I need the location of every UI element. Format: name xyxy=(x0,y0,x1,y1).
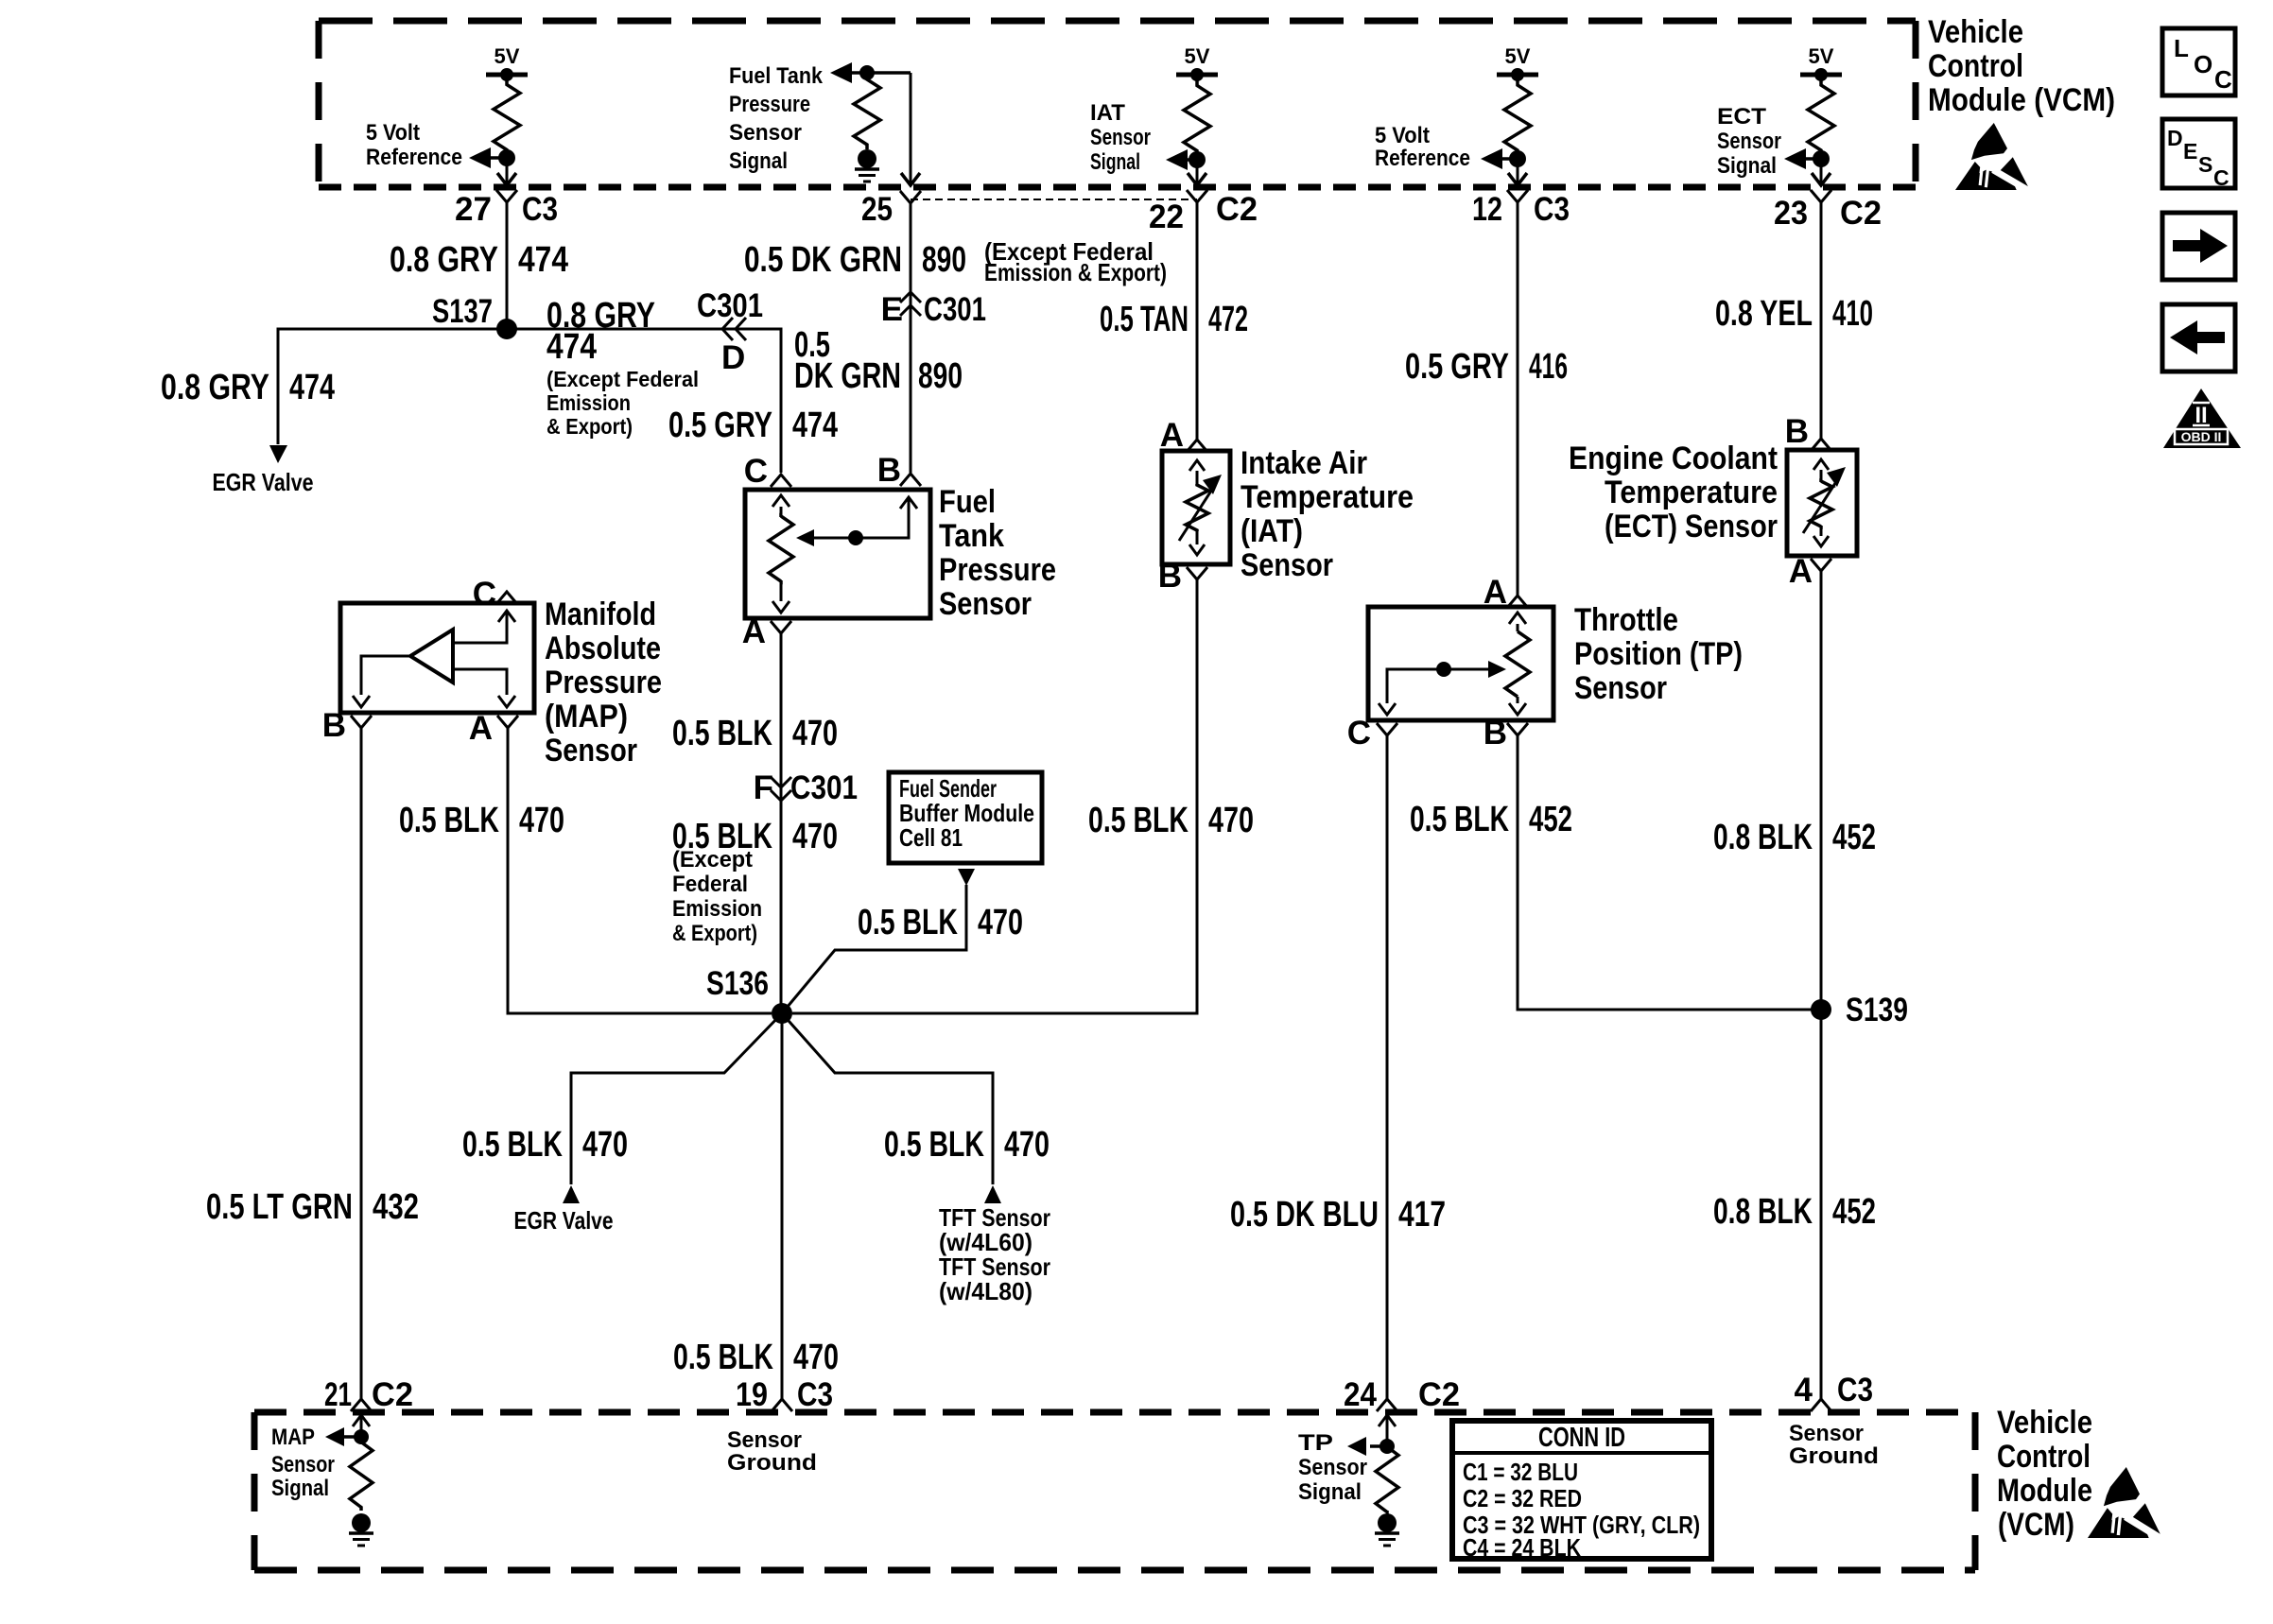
svg-text:C301: C301 xyxy=(924,291,986,328)
svg-text:5 Volt: 5 Volt xyxy=(366,120,420,146)
svg-text:(IAT): (IAT) xyxy=(1241,513,1303,549)
pin C of TP sensor xyxy=(1347,715,1397,752)
power 5V rail (pin 23 column) xyxy=(1800,44,1842,81)
node S139 splice xyxy=(1811,992,1908,1028)
wire down to pin 22 with arrow xyxy=(1188,160,1206,185)
wiper arm inside TP xyxy=(1379,661,1506,715)
connector C301 D (double chevron left) xyxy=(697,287,763,376)
svg-text:(w/4L80): (w/4L80) xyxy=(939,1277,1032,1305)
ESD symbol bottom xyxy=(2088,1467,2162,1540)
svg-text:0.8 GRY: 0.8 GRY xyxy=(161,368,269,407)
label 0.8 YEL 410 xyxy=(1715,294,1873,334)
resistor TP signal load xyxy=(1376,1447,1398,1512)
svg-text:Vehicle: Vehicle xyxy=(1997,1405,2092,1441)
svg-text:E: E xyxy=(881,291,903,328)
svg-text:470: 470 xyxy=(793,1338,839,1377)
potentiometer resistor inside TP xyxy=(1505,613,1530,715)
wire MAP A down to S136 xyxy=(508,728,772,1013)
svg-text:C3: C3 xyxy=(522,191,558,228)
svg-text:Pressure: Pressure xyxy=(545,665,662,700)
label 0.5 GRY 416 xyxy=(1405,347,1568,387)
label Fuel Tank Pressure Sensor xyxy=(939,484,1056,622)
power 5V rail (pin 22 column) xyxy=(1176,44,1218,81)
svg-text:Fuel: Fuel xyxy=(939,484,996,520)
svg-text:470: 470 xyxy=(582,1125,628,1165)
ground symbol MAP signal xyxy=(349,1513,373,1546)
label EGR Valve (bottom) xyxy=(514,1206,614,1235)
svg-text:470: 470 xyxy=(1004,1125,1050,1165)
svg-text:890: 890 xyxy=(918,356,963,396)
component Fuel Sender Buffer Module box xyxy=(889,772,1042,863)
connector C301 F (double chevron down) xyxy=(754,769,858,806)
svg-text:Signal: Signal xyxy=(1090,149,1140,175)
svg-text:Pressure: Pressure xyxy=(729,92,810,117)
svg-text:B: B xyxy=(1158,558,1182,595)
wire S136 down to pin 19 xyxy=(781,1013,784,1399)
svg-text:0.5 DK BLU: 0.5 DK BLU xyxy=(1230,1195,1379,1235)
svg-text:Sensor: Sensor xyxy=(1574,670,1667,706)
svg-text:B: B xyxy=(877,452,901,489)
svg-text:B: B xyxy=(322,707,346,744)
wire fuel tank A down through F C301 to S136 xyxy=(780,633,783,1013)
thermistor symbol inside ECT xyxy=(1803,459,1846,546)
wire S136 down-left branch to EGR valve xyxy=(571,1013,782,1184)
MAP input wire to A pin (down arrow) xyxy=(453,669,515,707)
arrow to TFT sensor (up) xyxy=(984,1185,1001,1203)
label MAP Sensor Signal xyxy=(271,1425,335,1501)
component ECT sensor box xyxy=(1787,450,1857,556)
svg-text:DK GRN: DK GRN xyxy=(794,356,901,396)
svg-text:A: A xyxy=(742,613,766,650)
wiper arm inside fuel tank sensor xyxy=(796,497,917,546)
pin 12 C3 connector xyxy=(1472,190,1570,228)
module VCM bottom dashed box xyxy=(254,1412,1975,1570)
svg-text:C2: C2 xyxy=(372,1376,413,1413)
svg-text:470: 470 xyxy=(519,801,564,840)
svg-text:C: C xyxy=(1347,715,1371,752)
label IAT Sensor Signal with left arrow xyxy=(1090,100,1197,175)
label 0.8 GRY 474 (pin 27 wire) xyxy=(390,240,568,280)
svg-text:S137: S137 xyxy=(432,293,493,330)
label 0.5 BLK 470 (pin 19 wire) xyxy=(673,1338,839,1377)
wire S136 right to IAT B xyxy=(792,579,1197,1013)
label 0.8 GRY 474 (EGR branch) xyxy=(161,368,335,407)
svg-text:Pressure: Pressure xyxy=(939,552,1056,588)
svg-text:0.5 DK GRN: 0.5 DK GRN xyxy=(744,240,902,280)
svg-text:5V: 5V xyxy=(495,44,520,68)
svg-text:Reference: Reference xyxy=(1375,146,1470,171)
svg-text:& Export): & Export) xyxy=(672,921,757,946)
node junction IAT signal xyxy=(1189,151,1206,168)
svg-text:0.5 BLK: 0.5 BLK xyxy=(1088,801,1189,840)
svg-text:C301: C301 xyxy=(697,287,763,324)
svg-text:S: S xyxy=(2198,152,2212,177)
svg-text:Engine Coolant: Engine Coolant xyxy=(1569,441,1778,476)
label 0.5 DK GRN 890 (pin 25 wire) xyxy=(744,240,966,280)
svg-text:B: B xyxy=(1484,715,1507,752)
svg-text:22: 22 xyxy=(1149,199,1184,235)
label 0.5 BLK 452 (TP B wire) xyxy=(1410,800,1572,839)
svg-text:E: E xyxy=(2183,139,2197,164)
op-amp triangle inside MAP xyxy=(410,630,453,682)
svg-text:474: 474 xyxy=(289,368,335,407)
svg-text:416: 416 xyxy=(1529,347,1568,387)
svg-text:470: 470 xyxy=(792,714,838,753)
svg-text:19: 19 xyxy=(736,1376,768,1413)
svg-text:F: F xyxy=(754,769,773,806)
pin C of MAP sensor xyxy=(473,576,517,613)
svg-text:Absolute: Absolute xyxy=(545,631,661,666)
label 0.5 LT GRN 432 xyxy=(206,1187,419,1227)
wire pin25 down through E C301 to fuel tank B xyxy=(910,202,912,473)
pin 4 C3 connector xyxy=(1795,1372,1873,1411)
svg-text:410: 410 xyxy=(1832,294,1873,334)
pin B of fuel tank pressure sensor xyxy=(877,452,921,489)
connector C301 E (double chevron up) xyxy=(881,291,986,328)
svg-text:432: 432 xyxy=(373,1187,419,1227)
svg-text:Position (TP): Position (TP) xyxy=(1574,636,1743,672)
svg-text:21: 21 xyxy=(324,1376,352,1413)
svg-text:0.5 BLK: 0.5 BLK xyxy=(399,801,499,840)
svg-text:Sensor: Sensor xyxy=(1090,125,1151,150)
svg-text:C3: C3 xyxy=(1534,191,1570,228)
svg-text:Emission: Emission xyxy=(547,390,631,415)
svg-text:Sensor: Sensor xyxy=(729,120,802,146)
potentiometer resistor inside fuel tank sensor xyxy=(769,495,793,613)
svg-text:474: 474 xyxy=(518,240,568,280)
svg-text:Intake Air: Intake Air xyxy=(1241,445,1367,481)
svg-text:CONN ID: CONN ID xyxy=(1538,1423,1625,1453)
label TP Sensor Signal xyxy=(1298,1430,1367,1505)
svg-text:Emission: Emission xyxy=(672,896,762,922)
svg-text:Throttle: Throttle xyxy=(1574,602,1678,638)
component Fuel Tank Pressure Sensor box xyxy=(745,490,930,618)
svg-text:D: D xyxy=(721,339,745,376)
svg-text:0.5 BLK: 0.5 BLK xyxy=(673,1338,773,1377)
svg-text:(Except Federal: (Except Federal xyxy=(547,367,699,391)
wire down to pin 25 with arrow xyxy=(901,73,920,185)
ESD symbol top xyxy=(1955,123,2030,191)
svg-text:0.8 GRY: 0.8 GRY xyxy=(390,240,498,280)
component IAT sensor box xyxy=(1162,451,1230,564)
svg-text:470: 470 xyxy=(978,903,1023,942)
svg-text:A: A xyxy=(1160,417,1184,454)
MAP output wire to B pin (down arrow) xyxy=(353,656,410,707)
svg-text:C4 = 24 BLK: C4 = 24 BLK xyxy=(1463,1533,1581,1562)
svg-text:Module (VCM): Module (VCM) xyxy=(1928,82,2115,118)
resistor pull-up ECT signal xyxy=(1808,77,1834,159)
svg-text:Temperature: Temperature xyxy=(1605,475,1778,510)
svg-text:Sensor: Sensor xyxy=(271,1452,335,1477)
svg-text:Sensor: Sensor xyxy=(727,1427,802,1453)
label 0.5 BLK 470 (TFT branch) xyxy=(884,1125,1050,1165)
svg-text:0.5 BLK: 0.5 BLK xyxy=(1410,800,1509,839)
wire pin27 to S137 xyxy=(506,202,509,329)
svg-text:0.5 GRY: 0.5 GRY xyxy=(1405,347,1509,387)
svg-text:S139: S139 xyxy=(1846,992,1908,1028)
label Sensor Ground (pin 19) xyxy=(727,1427,817,1476)
svg-text:Federal: Federal xyxy=(672,872,748,897)
dashed boundary pin25-pin22 xyxy=(911,199,1197,200)
svg-text:C2: C2 xyxy=(1418,1376,1460,1413)
svg-text:(ECT) Sensor: (ECT) Sensor xyxy=(1605,509,1778,544)
svg-text:5V: 5V xyxy=(1185,44,1210,68)
wire TP C down to pin 24 xyxy=(1386,735,1389,1399)
svg-text:C: C xyxy=(2214,65,2232,94)
svg-text:Sensor: Sensor xyxy=(545,733,637,769)
svg-text:0.5 LT GRN: 0.5 LT GRN xyxy=(206,1187,353,1227)
svg-text:25: 25 xyxy=(861,191,893,228)
label 5 Volt Reference (TP) with left arrow xyxy=(1375,123,1518,171)
svg-text:Sensor: Sensor xyxy=(1241,547,1333,583)
svg-text:Signal: Signal xyxy=(729,148,788,174)
svg-text:Reference: Reference xyxy=(366,145,462,170)
svg-text:Control: Control xyxy=(1997,1439,2091,1475)
label 0.8 BLK 452 (below S139) xyxy=(1713,1192,1876,1232)
wire pin12 down to TP A xyxy=(1517,202,1519,596)
icon LOC box xyxy=(2162,28,2235,95)
svg-text:Sensor: Sensor xyxy=(1717,129,1781,154)
svg-text:452: 452 xyxy=(1832,1192,1876,1232)
resistor pull-up 5V reference TP xyxy=(1504,77,1531,159)
svg-text:5 Volt: 5 Volt xyxy=(1375,123,1430,148)
label 0.5 BLK 470 (above F) xyxy=(672,714,838,753)
svg-text:27: 27 xyxy=(455,191,492,228)
wire pin22 down to IAT A xyxy=(1196,202,1199,440)
svg-text:5V: 5V xyxy=(1809,44,1834,68)
svg-text:C2 = 32 RED: C2 = 32 RED xyxy=(1463,1484,1582,1512)
ground symbol fuel tank pull-down xyxy=(855,149,879,181)
svg-text:B: B xyxy=(1785,413,1809,450)
label 0.5 BLK 470 (EGR ground branch) xyxy=(462,1125,628,1165)
label Manifold Absolute Pressure (MAP) Sensor xyxy=(545,596,662,769)
svg-text:OBD II: OBD II xyxy=(2181,429,2222,444)
resistor pull-up IAT signal xyxy=(1184,77,1210,160)
icon OBD II triangle xyxy=(2163,389,2241,448)
svg-text:474: 474 xyxy=(547,327,597,367)
node junction 5V ref xyxy=(498,149,515,166)
power 5V rail (pin 27 column) xyxy=(486,44,528,81)
svg-text:EGR Valve: EGR Valve xyxy=(514,1206,614,1235)
svg-text:& Export): & Export) xyxy=(547,414,633,439)
pin B of TP sensor xyxy=(1484,715,1528,752)
svg-text:472: 472 xyxy=(1208,300,1248,339)
pin 27 C3 connector xyxy=(455,190,558,228)
node junction 5V ref TP xyxy=(1509,150,1526,167)
svg-text:C2: C2 xyxy=(1216,191,1258,228)
resistor MAP signal load xyxy=(350,1439,373,1511)
svg-text:S136: S136 xyxy=(706,965,769,1002)
TP sensor signal input circuit xyxy=(1347,1415,1396,1456)
arrow to EGR Valve (down) xyxy=(269,445,287,463)
svg-text:23: 23 xyxy=(1774,195,1808,232)
label 0.5 TAN 472 xyxy=(1100,300,1248,339)
label Intake Air Temperature (IAT) Sensor xyxy=(1241,445,1414,583)
svg-text:Sensor: Sensor xyxy=(939,586,1032,622)
pin B of MAP sensor xyxy=(322,707,372,744)
svg-text:O: O xyxy=(2194,50,2212,78)
label EGR Valve (left) xyxy=(213,468,314,496)
svg-text:(VCM): (VCM) xyxy=(1998,1507,2074,1543)
pin 22 C2 connector xyxy=(1149,190,1258,235)
node S136 splice xyxy=(706,965,792,1024)
label (Except Federal Emission & Export) top xyxy=(984,237,1167,286)
pin C of fuel tank pressure sensor xyxy=(744,453,791,490)
label Fuel Tank Pressure Sensor Signal with left arrow xyxy=(729,62,852,174)
pin 23 C2 connector xyxy=(1774,190,1882,232)
pin 21 C2 connector xyxy=(324,1376,413,1413)
svg-text:C301: C301 xyxy=(790,769,858,806)
pin A of MAP sensor xyxy=(469,710,518,747)
MAP input wire to C pin (up arrow) xyxy=(453,611,515,643)
svg-text:C3: C3 xyxy=(797,1376,833,1413)
svg-text:452: 452 xyxy=(1832,818,1876,857)
icon right-arrow box xyxy=(2162,213,2235,280)
svg-text:D: D xyxy=(2167,126,2183,150)
wire S137 right to C301 corner down to fuel tank C xyxy=(507,329,781,473)
resistor pull-down fuel tank signal xyxy=(854,75,880,149)
icon DESC box xyxy=(2162,119,2235,190)
svg-text:IAT: IAT xyxy=(1090,100,1125,126)
node junction ECT signal xyxy=(1813,150,1830,167)
wire S136 down-right branch to TFT sensor xyxy=(782,1013,993,1184)
pin A of TP sensor xyxy=(1484,574,1528,611)
svg-text:Ground: Ground xyxy=(1789,1443,1879,1469)
svg-text:Tank: Tank xyxy=(939,518,1004,554)
pin A of IAT sensor xyxy=(1160,417,1207,454)
arrow from buffer module (down) xyxy=(958,869,975,886)
svg-text:24: 24 xyxy=(1344,1376,1377,1413)
svg-text:0.5 TAN: 0.5 TAN xyxy=(1100,300,1189,339)
label 0.5 DK BLU 417 xyxy=(1230,1195,1446,1235)
wire pin23 down to ECT B xyxy=(1820,202,1823,439)
pin 24 C2 connector xyxy=(1344,1376,1460,1413)
svg-text:0.5 GRY: 0.5 GRY xyxy=(668,406,772,445)
label 0.5 GRY 474 (fuel tank C wire) xyxy=(668,406,838,445)
label 0.5 BLK 470 (MAP A wire) xyxy=(399,801,564,840)
svg-text:Vehicle: Vehicle xyxy=(1928,14,2023,50)
pin B of IAT sensor xyxy=(1158,558,1207,595)
svg-text:(Except: (Except xyxy=(672,847,753,872)
svg-text:C3: C3 xyxy=(1837,1372,1873,1408)
svg-text:Cell 81: Cell 81 xyxy=(899,823,963,852)
svg-text:Sensor: Sensor xyxy=(1298,1455,1367,1480)
label 0.5 BLK 470 (buffer branch) xyxy=(858,903,1023,942)
svg-text:C: C xyxy=(744,453,768,490)
svg-text:470: 470 xyxy=(792,817,838,856)
svg-text:474: 474 xyxy=(792,406,838,445)
svg-text:452: 452 xyxy=(1529,800,1572,839)
label 0.5 BLK 470 (Except Federal Emission & Export) below F xyxy=(672,817,838,946)
svg-text:417: 417 xyxy=(1398,1195,1446,1235)
wire MAP B down to pin 21 xyxy=(360,728,363,1399)
table CONN ID xyxy=(1452,1421,1711,1562)
svg-text:(MAP): (MAP) xyxy=(545,699,628,734)
svg-text:0.5 BLK: 0.5 BLK xyxy=(462,1125,563,1165)
power 5V rail (pin 12 column) xyxy=(1497,44,1538,81)
wire TP B down to S139 xyxy=(1518,735,1821,1010)
node S137 splice xyxy=(432,293,517,339)
svg-text:12: 12 xyxy=(1472,191,1502,228)
svg-text:0.5 BLK: 0.5 BLK xyxy=(858,903,958,942)
svg-text:0.8 BLK: 0.8 BLK xyxy=(1713,818,1813,857)
label Vehicle Control Module (VCM) bottom right xyxy=(1997,1405,2092,1543)
label TFT Sensor (w/4L60) (w/4L80) xyxy=(939,1203,1050,1305)
wire fuel tank signal horizontal xyxy=(850,71,911,75)
svg-text:C2: C2 xyxy=(1840,195,1882,232)
svg-text:890: 890 xyxy=(922,240,966,280)
svg-text:C: C xyxy=(2213,165,2230,190)
arrow to EGR valve (up) xyxy=(563,1185,580,1203)
svg-text:0.8 BLK: 0.8 BLK xyxy=(1713,1192,1813,1232)
svg-text:5V: 5V xyxy=(1505,44,1531,68)
svg-text:Emission & Export): Emission & Export) xyxy=(984,258,1167,286)
wire ECT A down through S139 to pin 4 xyxy=(1820,571,1823,1399)
pin 25 connector xyxy=(861,191,921,228)
wire down to pin 23 with arrow xyxy=(1812,159,1831,185)
pin A of fuel tank pressure sensor xyxy=(742,613,791,650)
pin 19 C3 connector xyxy=(736,1376,833,1413)
label 5 Volt Reference with left arrow xyxy=(366,120,507,170)
label Vehicle Control Module (VCM) top right xyxy=(1928,14,2115,118)
svg-text:Signal: Signal xyxy=(271,1476,329,1501)
svg-text:A: A xyxy=(469,710,493,747)
wire S137 left branch to EGR xyxy=(278,329,507,444)
svg-text:Manifold: Manifold xyxy=(545,596,656,632)
svg-text:4: 4 xyxy=(1795,1372,1813,1408)
ground symbol TP signal xyxy=(1375,1513,1399,1546)
svg-text:Signal: Signal xyxy=(1717,153,1777,179)
svg-text:470: 470 xyxy=(1208,801,1254,840)
wire buffer module to S136 xyxy=(782,885,966,1013)
svg-text:MAP: MAP xyxy=(271,1425,315,1450)
svg-text:Sensor: Sensor xyxy=(1789,1421,1864,1446)
svg-text:ECT: ECT xyxy=(1717,104,1766,130)
wire down to pin 27 with arrow xyxy=(497,158,516,185)
svg-text:0.5 BLK: 0.5 BLK xyxy=(672,714,772,753)
label 0.5 BLK 470 (IAT B wire) xyxy=(1088,801,1254,840)
component MAP sensor box xyxy=(340,603,534,713)
svg-text:Temperature: Temperature xyxy=(1241,479,1414,515)
svg-text:L: L xyxy=(2174,34,2189,62)
svg-text:A: A xyxy=(1789,553,1813,590)
svg-text:0.5 BLK: 0.5 BLK xyxy=(884,1125,984,1165)
thermistor symbol inside IAT xyxy=(1179,460,1222,555)
node junction fuel tank signal xyxy=(859,65,875,80)
svg-text:Ground: Ground xyxy=(727,1450,817,1476)
label 0.8 GRY 474 (Except Federal Emission & Export) after S137 xyxy=(547,296,699,439)
svg-text:TP: TP xyxy=(1298,1430,1333,1456)
svg-text:Control: Control xyxy=(1928,48,2023,84)
component TP sensor box xyxy=(1368,607,1553,720)
module VCM top dashed box xyxy=(319,21,1916,187)
wire down to pin 12 with arrow xyxy=(1508,159,1527,185)
svg-text:Signal: Signal xyxy=(1298,1479,1362,1505)
label Throttle Position (TP) Sensor xyxy=(1574,602,1743,706)
svg-text:0.8 YEL: 0.8 YEL xyxy=(1715,294,1813,334)
label Sensor Ground (pin 4) xyxy=(1789,1421,1879,1469)
svg-text:C1 = 32 BLU: C1 = 32 BLU xyxy=(1463,1458,1578,1486)
label 0.5 DK GRN 890 (below E) xyxy=(794,325,963,396)
resistor pull-up 5V reference xyxy=(494,77,520,158)
svg-text:EGR Valve: EGR Valve xyxy=(213,468,314,496)
MAP sensor signal input circuit xyxy=(325,1415,370,1446)
svg-text:Fuel Tank: Fuel Tank xyxy=(729,63,824,89)
icon left-arrow box xyxy=(2162,304,2235,371)
svg-text:C: C xyxy=(473,576,496,613)
pin B of ECT sensor xyxy=(1785,413,1831,451)
label ECT Sensor Signal with left arrow xyxy=(1717,104,1821,179)
